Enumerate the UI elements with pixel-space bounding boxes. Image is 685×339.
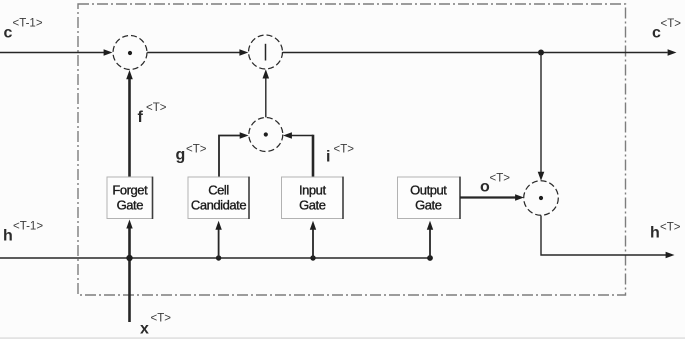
arrowhead x into Forget Gate [126,220,132,229]
arrowhead into Output Gate [427,221,433,230]
wire x thick vertical [128,225,131,322]
junction g on h line [216,255,221,260]
svg-text:Input: Input [299,183,327,198]
svg-text:c: c [4,25,13,42]
wire up into Input Gate [312,227,314,258]
svg-text:<T>: <T> [146,102,167,114]
junction o on h line [427,255,433,261]
svg-text:<T>: <T> [490,173,511,185]
multiply node N1 circle [113,36,147,70]
arrowhead into Input Gate [310,221,316,230]
svg-text:<T>: <T> [334,144,355,156]
box Output Gate [398,177,461,219]
svg-text:Gate: Gate [415,198,442,213]
svg-text:Gate: Gate [299,198,326,213]
svg-text:<T>: <T> [151,313,172,325]
wire i vertical thick [312,135,315,177]
wire o horizontal [460,196,516,198]
dashed cell boundary [78,4,626,295]
wire g path [219,136,240,178]
wire c branch down to N4 [540,54,542,176]
wire up into Cell Candidate [218,227,220,258]
svg-text:f: f [138,109,144,126]
svg-text:Forget: Forget [112,183,148,198]
arrowhead c output [668,49,677,56]
svg-text:Output: Output [410,183,447,198]
svg-text:Candidate: Candidate [191,198,246,213]
svg-text:o: o [480,179,490,196]
arrowhead into Cell Candidate [215,221,221,230]
svg-text:Gate: Gate [117,198,144,213]
wire c output segment [283,52,668,54]
arrowhead into add node N2 [239,49,248,56]
scan edge smudge bottom [0,337,685,339]
wire c input segment [0,52,104,54]
add node N2 circle [249,35,283,69]
arrowhead g into N3 [240,132,249,139]
junction i on h line [310,255,315,260]
multiply node N1 dot [128,51,132,55]
arrowhead o into N4 [515,194,524,201]
wire h output path [541,216,666,256]
svg-text:h: h [3,228,13,245]
box Forget Gate [107,177,153,219]
svg-text:<T-1>: <T-1> [13,18,43,30]
wire up into Output Gate [429,227,431,258]
svg-text:<T-1>: <T-1> [13,221,43,233]
svg-text:<T>: <T> [661,18,682,30]
wire i horizontal [292,135,314,137]
wire N1 to add node [147,52,239,54]
wire f thick vertical [128,75,131,177]
multiply node N3 dot [264,132,268,136]
svg-text:<T>: <T> [186,144,207,156]
junction on c line [538,50,544,56]
add node N2 bar [265,44,267,61]
multiply node N4 circle [524,181,559,216]
arrowhead f into N1 [126,70,133,79]
arrowhead into multiply node N1 [104,49,113,56]
arrowhead down into N4 [538,172,545,181]
multiply node N4 dot [539,196,543,200]
wire N3 to N2 vertical [265,75,267,118]
svg-text:<T>: <T> [660,222,681,234]
svg-text:x: x [140,321,149,338]
svg-text:g: g [176,147,186,164]
svg-text:h: h [650,225,660,242]
multiply node N3 circle [249,118,283,152]
box Cell Candidate [188,177,249,219]
arrowhead h output [666,252,675,259]
svg-text:i: i [326,149,330,166]
arrowhead i into N3 [283,132,292,139]
junction x on h line [126,255,132,261]
svg-text:Cell: Cell [208,183,229,198]
wire h input line [0,257,430,259]
arrowhead into N2 bottom [263,69,270,78]
box Input Gate [282,177,344,219]
